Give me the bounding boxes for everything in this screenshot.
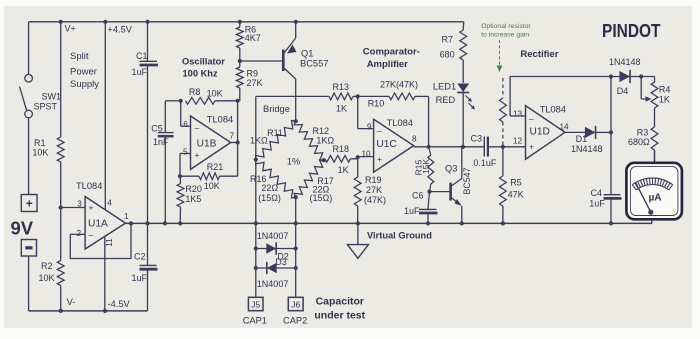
op-amp U1B (183, 115, 240, 170)
svg-text:under test: under test (314, 309, 365, 321)
svg-text:Supply: Supply (70, 79, 99, 90)
svg-text:R7: R7 (442, 35, 454, 45)
svg-text:27K: 27K (247, 78, 263, 88)
svg-text:4: 4 (107, 199, 112, 208)
svg-text:U1A: U1A (88, 219, 108, 230)
svg-text:9V: 9V (11, 218, 34, 239)
wire virtual-ground rail (126, 222, 653, 224)
svg-text:27K(47K): 27K(47K) (380, 80, 418, 90)
resistor R6 (236, 20, 260, 61)
svg-text:–: – (529, 113, 534, 123)
svg-text:R8: R8 (189, 87, 201, 97)
svg-text:J5: J5 (251, 300, 260, 310)
svg-text:J6: J6 (291, 300, 300, 310)
svg-text:9: 9 (367, 122, 372, 131)
resistor R10 (358, 80, 429, 147)
svg-text:CAP2: CAP2 (283, 316, 307, 326)
svg-text:U1B: U1B (197, 139, 217, 150)
svg-text:1uF: 1uF (589, 199, 605, 209)
node V+ (65, 24, 76, 34)
svg-text:8: 8 (412, 135, 417, 144)
node +4.5V (103, 20, 133, 210)
capacitor C6 (404, 191, 438, 226)
text comparator-amplifier (363, 46, 420, 70)
svg-text:1K: 1K (659, 94, 670, 104)
svg-text:1%: 1% (287, 156, 300, 166)
svg-text:1: 1 (124, 212, 129, 221)
svg-text:1uF: 1uF (132, 273, 148, 283)
resistor R13 (329, 82, 360, 113)
svg-text:to increase gain: to increase gain (481, 31, 529, 38)
text oscillator (182, 56, 225, 78)
svg-text:1N4007: 1N4007 (257, 279, 289, 289)
svg-text:15K: 15K (421, 159, 431, 175)
resistor R16 (250, 160, 296, 203)
svg-text:R11: R11 (267, 128, 283, 138)
svg-text:PINDOT: PINDOT (602, 20, 661, 41)
node U1A pin3 (59, 205, 85, 209)
svg-text:7: 7 (230, 132, 235, 141)
svg-text:Capacitor: Capacitor (316, 295, 364, 307)
svg-text:LED1: LED1 (433, 82, 456, 92)
svg-text:R13: R13 (333, 82, 350, 92)
resistor R3 (628, 108, 658, 163)
svg-text:V-: V- (67, 297, 76, 307)
svg-text:–: – (195, 123, 200, 133)
node V- (59, 297, 76, 313)
svg-text:R2: R2 (41, 261, 53, 271)
svg-text:U1D: U1D (530, 126, 550, 137)
wire rectifier feedback top (510, 74, 654, 78)
svg-text:TL084: TL084 (76, 181, 102, 191)
svg-text:TL084: TL084 (540, 104, 566, 114)
svg-text:D3: D3 (275, 257, 287, 267)
svg-text:Virtual Ground: Virtual Ground (367, 231, 432, 241)
diode D1 1N4148 (565, 126, 613, 154)
wire U1C pin9 (358, 96, 374, 128)
node -4.5V (103, 299, 131, 313)
svg-text:V+: V+ (65, 24, 76, 34)
resistor R21 (178, 162, 238, 191)
svg-text:1uF: 1uF (404, 206, 420, 216)
svg-text:SW1: SW1 (42, 92, 62, 102)
svg-text:12: 12 (513, 137, 523, 146)
svg-text:Comparator-: Comparator- (363, 46, 420, 57)
wire C3 to U1D pin12 (488, 145, 526, 149)
svg-text:47K: 47K (508, 189, 524, 199)
svg-text:RED: RED (436, 95, 456, 105)
wire bridge bottom (294, 197, 298, 297)
capacitor C5 (151, 101, 180, 226)
svg-text:Oscillator: Oscillator (182, 56, 225, 66)
svg-text:C6: C6 (412, 191, 424, 201)
svg-text:13: 13 (513, 109, 523, 118)
svg-text:3: 3 (77, 200, 82, 209)
transistor Q3 (430, 147, 473, 226)
svg-text:C1: C1 (136, 51, 148, 61)
meter M1 uA (626, 150, 682, 223)
text split power supply (70, 51, 99, 90)
resistor R8 (179, 87, 240, 104)
svg-text:Rectifier: Rectifier (520, 49, 558, 60)
svg-text:680: 680 (440, 49, 455, 59)
resistor R17 (294, 160, 334, 203)
svg-text:R10: R10 (368, 99, 385, 109)
svg-text:R21: R21 (207, 162, 224, 172)
svg-text:Amplifier: Amplifier (367, 59, 408, 70)
svg-text:1K: 1K (338, 165, 349, 175)
svg-text:2: 2 (77, 229, 82, 238)
svg-text:(47K): (47K) (364, 195, 386, 205)
text optional resistor note (481, 23, 531, 72)
svg-text:CAP1: CAP1 (243, 316, 267, 326)
svg-text:R18: R18 (333, 144, 350, 154)
resistor optional dashed (500, 78, 507, 147)
svg-text:C5: C5 (151, 123, 163, 133)
svg-text:SPST: SPST (34, 101, 58, 111)
svg-text:Power: Power (70, 66, 97, 77)
svg-text:11: 11 (105, 238, 114, 247)
ground virtual (347, 221, 432, 258)
svg-text:6: 6 (183, 120, 188, 129)
text 1% (287, 156, 300, 166)
text rectifier (520, 49, 558, 60)
svg-text:10: 10 (362, 149, 372, 158)
svg-text:1N4148: 1N4148 (571, 144, 603, 154)
svg-text:14: 14 (560, 122, 570, 131)
svg-text:–: – (89, 230, 94, 240)
diode D4 1N4148 (609, 57, 641, 96)
svg-text:1KΩ: 1KΩ (250, 135, 268, 145)
resistor R19 (354, 157, 386, 223)
svg-text:U1C: U1C (376, 139, 396, 150)
svg-text:C4: C4 (591, 188, 603, 198)
svg-text:10K: 10K (39, 273, 55, 283)
wire bridge left (254, 96, 258, 297)
wire oscillator feedback (237, 101, 239, 176)
svg-text:R4: R4 (659, 85, 671, 95)
svg-text:0.1uF: 0.1uF (473, 158, 497, 168)
svg-text:(15Ω): (15Ω) (258, 193, 281, 203)
svg-text:10K: 10K (207, 89, 223, 99)
svg-text:(15Ω): (15Ω) (310, 193, 333, 203)
svg-text:680Ω: 680Ω (628, 137, 650, 147)
resistor R20 (177, 176, 202, 225)
diode D3 1N4007 (254, 257, 298, 289)
svg-text:D4: D4 (617, 86, 629, 96)
svg-text:+: + (26, 197, 33, 211)
wire bottom V- rail (29, 310, 148, 312)
svg-text:+: + (529, 141, 534, 151)
svg-text:1uF: 1uF (132, 67, 148, 77)
svg-text:BC547: BC547 (462, 167, 472, 194)
connector J5 CAP1 (243, 297, 267, 325)
capacitor C3 (471, 133, 497, 167)
svg-text:+4.5V: +4.5V (107, 25, 132, 35)
svg-text:10K: 10K (32, 147, 48, 157)
svg-text:µA: µA (649, 193, 662, 204)
resistor R15 (414, 147, 434, 194)
svg-text:1K5: 1K5 (185, 194, 201, 204)
svg-text:1N4007: 1N4007 (257, 231, 289, 241)
svg-text:10K: 10K (204, 181, 220, 191)
svg-text:4K7: 4K7 (245, 33, 261, 43)
svg-text:R19: R19 (365, 175, 382, 185)
svg-text:–: – (377, 126, 382, 136)
wire U1B pin5 (180, 154, 191, 177)
svg-text:+: + (89, 203, 94, 213)
resistor R5 (500, 147, 524, 226)
text bridge (263, 104, 290, 114)
wire top V+ rail (29, 21, 464, 23)
svg-text:-4.5V: -4.5V (108, 299, 131, 309)
capacitor C2 (132, 221, 158, 311)
svg-text:R3: R3 (637, 127, 649, 137)
text capacitor under test (314, 295, 365, 321)
resistor R2 (39, 208, 65, 311)
diode D2 1N4007 (254, 231, 298, 261)
svg-text:Bridge: Bridge (263, 104, 290, 114)
svg-text:5: 5 (183, 147, 188, 156)
svg-text:1nF: 1nF (153, 137, 169, 147)
svg-text:R5: R5 (510, 178, 522, 188)
svg-text:BC557: BC557 (300, 59, 328, 69)
svg-text:27K: 27K (366, 185, 382, 195)
svg-text:R9: R9 (247, 68, 259, 78)
resistor R9 (236, 59, 262, 101)
battery 9V (11, 195, 38, 311)
svg-text:Split: Split (70, 51, 89, 62)
wire bridge top (256, 95, 329, 97)
text PINDOT (602, 20, 661, 41)
potentiometer R4 (639, 74, 670, 108)
resistor R12 (294, 121, 334, 162)
svg-text:100 Khz: 100 Khz (183, 69, 218, 79)
op-amp U1C (362, 118, 418, 172)
resistor R18 (325, 144, 374, 175)
wire U1A feedback (70, 221, 133, 258)
resistor R7 (440, 22, 467, 83)
wire U1C output (414, 145, 484, 149)
transistor Q1 (240, 20, 329, 122)
svg-text:C3: C3 (471, 133, 483, 143)
svg-text:R20: R20 (185, 184, 202, 194)
svg-text:+: + (377, 154, 382, 164)
capacitor C1 (132, 20, 159, 224)
svg-text:22Ω: 22Ω (261, 183, 278, 193)
op-amp U1A (76, 181, 131, 311)
wire D1 node vertical (610, 77, 612, 195)
svg-text:+: + (195, 150, 200, 160)
resistor R11 (250, 119, 298, 160)
switch SW1 SPST (20, 22, 62, 195)
op-amp U1D (510, 77, 569, 160)
resistor R1 (32, 20, 64, 208)
wire U1B pin6 (181, 101, 191, 126)
svg-text:Q3: Q3 (445, 163, 457, 173)
svg-text:Optional resistor: Optional resistor (481, 23, 531, 30)
svg-text:1N4148: 1N4148 (609, 57, 641, 67)
connector J6 CAP2 (283, 297, 307, 325)
svg-text:Q1: Q1 (301, 49, 313, 59)
capacitor C4 (589, 188, 621, 225)
svg-text:C2: C2 (134, 252, 146, 262)
svg-text:TL084: TL084 (387, 118, 413, 128)
svg-text:D1: D1 (576, 134, 588, 144)
LED LED1 (433, 82, 475, 147)
svg-text:1K: 1K (336, 104, 347, 114)
svg-text:TL084: TL084 (207, 115, 233, 125)
